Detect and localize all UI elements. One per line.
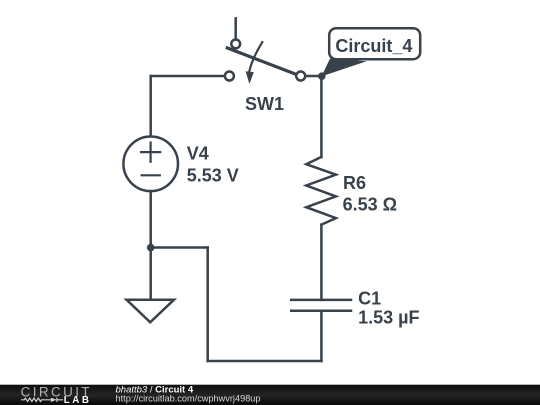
callout tail bbox=[322, 59, 367, 77]
svg-text:R6: R6 bbox=[343, 173, 366, 193]
wire node B to switch right contact bbox=[306, 75, 322, 78]
svg-text:LAB: LAB bbox=[64, 395, 92, 405]
ground bbox=[127, 300, 175, 323]
switch SW1 contacts bbox=[225, 40, 305, 81]
wire node A to ground stub bbox=[149, 248, 152, 300]
svg-text:6.53 Ω: 6.53 Ω bbox=[343, 194, 397, 214]
svg-text:Circuit_4: Circuit_4 bbox=[335, 36, 412, 56]
node B junction dot bbox=[318, 72, 326, 80]
wire left vertical to V4 top bbox=[149, 76, 152, 136]
wire capacitor top to resistor bottom bbox=[320, 225, 323, 300]
svg-text:5.53 V: 5.53 V bbox=[187, 166, 239, 186]
svg-text:C1: C1 bbox=[358, 288, 381, 308]
voltage source V4 bbox=[123, 137, 178, 192]
svg-text:1.53 µF: 1.53 µF bbox=[358, 308, 419, 328]
footer bar bbox=[0, 385, 540, 405]
node A junction dot bbox=[147, 244, 155, 252]
switch SW1 toggle arc bbox=[249, 42, 262, 71]
wire bottom horizontal bbox=[208, 360, 322, 363]
wire top-left horizontal to switch left contact bbox=[151, 75, 225, 78]
svg-text:V4: V4 bbox=[187, 143, 209, 163]
footer logo diode triangle bbox=[51, 398, 57, 402]
switch SW1 arrow head bbox=[246, 71, 254, 84]
callout box Circuit_4 bbox=[329, 28, 420, 59]
wire middle vertical down bbox=[206, 248, 209, 362]
svg-text:SW1: SW1 bbox=[245, 94, 284, 114]
wire V4 bottom to node A bbox=[149, 191, 152, 247]
wire capacitor bottom stub bbox=[320, 311, 323, 361]
resistor R6 bbox=[306, 157, 336, 225]
switch SW1 blade bbox=[227, 48, 296, 74]
svg-text:http://circuitlab.com/cwphwvrj: http://circuitlab.com/cwphwvrj498up bbox=[116, 393, 261, 403]
wire resistor top to node B bbox=[320, 76, 323, 157]
wire node A horizontal right bbox=[151, 246, 208, 249]
footer logo resistor-diode glyph bbox=[21, 398, 63, 402]
capacitor C1 bbox=[291, 300, 351, 311]
wire top stub above switch bbox=[234, 18, 237, 39]
